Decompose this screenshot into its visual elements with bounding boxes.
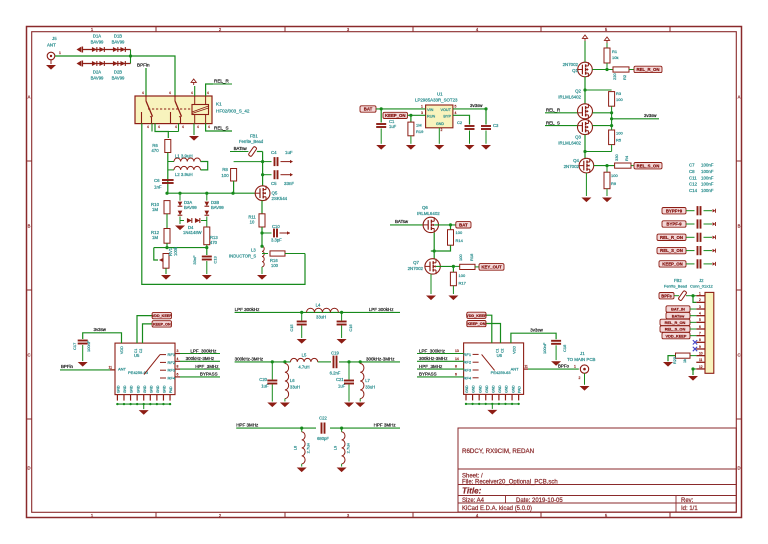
svg-text:4: 4 <box>169 91 171 95</box>
svg-text:1: 1 <box>59 51 61 55</box>
svg-text:REL_R_ON: REL_R_ON <box>637 67 660 72</box>
svg-text:BAV99: BAV99 <box>112 76 125 81</box>
svg-text:LPF 300kHz: LPF 300kHz <box>235 307 261 312</box>
svg-text:U1: U1 <box>437 92 443 97</box>
svg-text:RF1: RF1 <box>464 352 472 357</box>
svg-text:4: 4 <box>147 125 149 129</box>
svg-text:1M: 1M <box>416 123 422 128</box>
svg-text:100: 100 <box>616 97 623 102</box>
svg-text:KEEP_ON: KEEP_ON <box>467 322 485 326</box>
svg-text:GND: GND <box>123 385 127 393</box>
svg-text:C5: C5 <box>271 181 277 186</box>
svg-text:3v3sw: 3v3sw <box>94 327 107 332</box>
svg-text:3v3sw: 3v3sw <box>530 328 543 333</box>
svg-text:R3: R3 <box>616 91 622 96</box>
svg-text:TO MAIN PCB: TO MAIN PCB <box>567 357 596 362</box>
svg-text:11: 11 <box>109 366 113 370</box>
svg-text:R2: R2 <box>622 74 627 80</box>
svg-text:4: 4 <box>177 357 179 361</box>
svg-text:C: C <box>27 353 30 358</box>
svg-text:4.7uH: 4.7uH <box>298 365 309 370</box>
svg-text:C22: C22 <box>319 416 327 421</box>
svg-text:BAT_IN: BAT_IN <box>671 307 685 312</box>
svg-text:C3: C3 <box>493 123 499 128</box>
svg-text:BYPF+9: BYPF+9 <box>666 208 683 213</box>
svg-text:LPF 300kHz: LPF 300kHz <box>369 307 395 312</box>
svg-text:C8: C8 <box>689 169 695 174</box>
svg-text:11: 11 <box>525 364 529 368</box>
svg-text:HPF 3MHz: HPF 3MHz <box>236 423 259 428</box>
svg-text:D2B: D2B <box>114 70 122 75</box>
svg-text:R20: R20 <box>673 357 677 364</box>
svg-text:6: 6 <box>177 372 179 376</box>
svg-text:C13: C13 <box>213 256 218 264</box>
svg-text:C14: C14 <box>689 188 698 193</box>
svg-text:GND: GND <box>498 385 502 393</box>
svg-text:J2: J2 <box>699 278 704 283</box>
svg-text:REL_R: REL_R <box>546 107 560 112</box>
svg-text:8: 8 <box>177 365 179 369</box>
svg-text:220: 220 <box>612 73 617 80</box>
svg-text:L3: L3 <box>251 248 256 253</box>
svg-text:Rev:: Rev: <box>681 498 694 504</box>
svg-text:R9: R9 <box>611 181 617 186</box>
svg-text:GND: GND <box>472 385 476 393</box>
svg-text:1: 1 <box>421 105 423 109</box>
svg-text:BPFin: BPFin <box>61 364 74 369</box>
svg-text:470: 470 <box>151 148 159 153</box>
svg-text:REL_S_ON: REL_S_ON <box>637 163 660 168</box>
svg-text:Date: 2019-10-05: Date: 2019-10-05 <box>516 498 563 504</box>
svg-text:Ferrite_Bead: Ferrite_Bead <box>664 284 687 289</box>
svg-text:KiCad E.D.A. kicad (5.0.0): KiCad E.D.A. kicad (5.0.0) <box>462 506 532 512</box>
svg-text:C2: C2 <box>457 120 463 125</box>
svg-text:L6: L6 <box>290 378 295 383</box>
svg-text:VDD: VDD <box>120 346 124 354</box>
svg-text:C7: C7 <box>689 163 695 168</box>
svg-text:2SK544: 2SK544 <box>272 196 288 201</box>
svg-text:File: Receiver20_Optional_PCB.: File: Receiver20_Optional_PCB.sch <box>462 480 558 486</box>
svg-text:HF02/003_S_42: HF02/003_S_42 <box>216 109 250 114</box>
svg-text:33uH: 33uH <box>365 385 375 390</box>
svg-text:VDD_KEEP: VDD_KEEP <box>466 314 487 318</box>
svg-text:R18: R18 <box>469 253 474 261</box>
svg-text:BPFin: BPFin <box>137 63 150 68</box>
svg-text:300kHz-3MHz: 300kHz-3MHz <box>366 356 395 361</box>
svg-text:100: 100 <box>456 230 463 235</box>
svg-text:4: 4 <box>207 91 209 95</box>
svg-text:C18: C18 <box>562 344 567 352</box>
svg-text:Id: 1/1: Id: 1/1 <box>681 506 698 512</box>
svg-text:8: 8 <box>699 338 701 342</box>
svg-text:REL_S: REL_S <box>214 126 229 131</box>
svg-text:VDD: VDD <box>513 346 517 354</box>
svg-text:FB2: FB2 <box>674 278 682 283</box>
svg-text:REL_R_ON: REL_R_ON <box>660 235 683 240</box>
svg-text:7: 7 <box>699 331 701 335</box>
svg-text:REL_S_ON: REL_S_ON <box>660 248 683 253</box>
svg-text:R4: R4 <box>624 155 629 161</box>
svg-text:RF1: RF1 <box>168 352 176 357</box>
svg-text:GND: GND <box>130 385 134 393</box>
svg-text:100nF: 100nF <box>701 163 714 168</box>
svg-text:KEEP_ON: KEEP_ON <box>662 262 683 267</box>
svg-text:100nF: 100nF <box>542 342 547 354</box>
svg-text:4: 4 <box>182 125 184 129</box>
svg-text:RF2: RF2 <box>168 360 176 365</box>
svg-text:BYPASS: BYPASS <box>419 372 437 377</box>
svg-text:C4: C4 <box>271 150 277 155</box>
svg-text:B: B <box>28 224 31 229</box>
svg-text:470: 470 <box>210 240 218 245</box>
svg-text:3: 3 <box>177 349 179 353</box>
svg-text:4: 4 <box>455 111 457 115</box>
svg-text:Size: A4: Size: A4 <box>462 498 485 504</box>
svg-text:J5: J5 <box>52 36 57 41</box>
svg-text:1uF: 1uF <box>261 384 269 389</box>
svg-text:100nF: 100nF <box>86 340 91 352</box>
svg-text:6.2nF: 6.2nF <box>330 371 341 376</box>
svg-text:9: 9 <box>699 345 701 349</box>
svg-text:GND: GND <box>136 385 140 393</box>
svg-text:REL_R_ON: REL_R_ON <box>665 320 686 325</box>
svg-text:Conn_01x12: Conn_01x12 <box>690 284 713 289</box>
svg-text:6: 6 <box>699 325 701 329</box>
svg-text:RUN: RUN <box>427 115 435 119</box>
svg-text:BYP: BYP <box>443 115 451 119</box>
svg-text:RF3: RF3 <box>464 368 472 373</box>
svg-text:12: 12 <box>699 365 703 369</box>
svg-text:4: 4 <box>197 125 199 129</box>
svg-text:Ferrite_Bead: Ferrite_Bead <box>239 139 264 144</box>
svg-text:FB1: FB1 <box>250 134 258 139</box>
svg-text:2.7uH: 2.7uH <box>306 443 311 454</box>
svg-text:GND: GND <box>150 385 154 393</box>
svg-text:C6: C6 <box>154 178 160 183</box>
svg-text:33nF: 33nF <box>284 181 294 186</box>
svg-text:GND: GND <box>117 385 121 393</box>
svg-text:Q6: Q6 <box>422 205 428 210</box>
svg-text:J1: J1 <box>580 351 585 356</box>
svg-text:PE4259-63: PE4259-63 <box>491 370 512 375</box>
svg-text:4: 4 <box>142 91 144 95</box>
svg-text:GND: GND <box>492 385 496 393</box>
svg-text:10: 10 <box>699 351 703 355</box>
svg-text:A: A <box>28 95 31 100</box>
svg-text:HPF 3MHz: HPF 3MHz <box>374 423 397 428</box>
svg-text:300kHz-3MHz: 300kHz-3MHz <box>186 356 215 361</box>
svg-text:PAD: PAD <box>518 386 522 393</box>
svg-text:Q4: Q4 <box>573 158 579 163</box>
svg-text:1nF: 1nF <box>154 185 162 190</box>
svg-text:1uF: 1uF <box>285 150 293 155</box>
svg-text:GND: GND <box>143 385 147 393</box>
svg-text:10k: 10k <box>612 55 618 60</box>
svg-text:100nF: 100nF <box>701 175 714 180</box>
svg-text:L4: L4 <box>316 303 321 308</box>
svg-text:Q3: Q3 <box>575 135 581 140</box>
svg-text:PAD: PAD <box>169 386 173 393</box>
svg-text:5: 5 <box>699 318 701 322</box>
svg-text:K1: K1 <box>216 102 222 107</box>
svg-text:KEY_OUT: KEY_OUT <box>481 265 502 270</box>
svg-text:L8: L8 <box>293 445 298 450</box>
svg-text:100k: 100k <box>173 246 178 256</box>
svg-text:680pF: 680pF <box>317 436 329 441</box>
svg-text:33uH: 33uH <box>290 385 300 390</box>
svg-text:D: D <box>27 466 30 471</box>
svg-text:VOUT: VOUT <box>440 108 451 112</box>
svg-text:VDD_KEEP: VDD_KEEP <box>152 314 172 318</box>
svg-text:1uF: 1uF <box>389 124 397 129</box>
svg-text:R14: R14 <box>456 238 464 243</box>
svg-text:A: A <box>738 95 741 100</box>
svg-text:R5: R5 <box>616 138 622 143</box>
svg-text:Q7: Q7 <box>413 260 419 265</box>
svg-text:GND: GND <box>465 385 469 393</box>
svg-text:R17: R17 <box>459 281 467 286</box>
svg-text:RF4: RF4 <box>168 376 176 381</box>
svg-text:L7: L7 <box>365 378 370 383</box>
svg-text:4: 4 <box>699 311 701 315</box>
svg-text:Q2: Q2 <box>575 89 581 94</box>
svg-text:D: D <box>737 466 740 471</box>
svg-text:GND: GND <box>505 385 509 393</box>
svg-text:U6: U6 <box>497 353 503 358</box>
svg-text:13: 13 <box>455 349 459 353</box>
svg-text:BPFs: BPFs <box>661 293 672 298</box>
svg-text:BAT: BAT <box>459 222 468 227</box>
svg-text:IRLML6402: IRLML6402 <box>558 141 581 146</box>
svg-text:BAV99: BAV99 <box>91 76 104 81</box>
svg-text:R6DCY, RX9CIM, REDAN: R6DCY, RX9CIM, REDAN <box>462 448 534 455</box>
svg-text:GND: GND <box>478 385 482 393</box>
svg-text:100nF: 100nF <box>701 182 714 187</box>
svg-text:100: 100 <box>271 263 279 268</box>
svg-text:Q1: Q1 <box>572 68 578 73</box>
svg-text:C12: C12 <box>689 182 698 187</box>
svg-text:INDUCTOR_S: INDUCTOR_S <box>229 254 256 259</box>
svg-text:L9: L9 <box>333 445 338 450</box>
svg-text:L2 3.9uH: L2 3.9uH <box>175 172 193 177</box>
svg-text:BAV99: BAV99 <box>184 205 197 210</box>
svg-text:2: 2 <box>579 376 581 380</box>
svg-text:1M: 1M <box>152 207 158 212</box>
svg-text:KEEP_ON: KEEP_ON <box>385 113 406 118</box>
svg-text:Title:: Title: <box>462 487 482 496</box>
svg-text:R19: R19 <box>416 129 424 134</box>
svg-text:VDD_KEEP: VDD_KEEP <box>666 333 687 338</box>
svg-text:D1A: D1A <box>93 34 101 39</box>
svg-text:8: 8 <box>455 365 457 369</box>
svg-text:C19: C19 <box>331 351 339 356</box>
svg-text:BAV99: BAV99 <box>112 40 125 45</box>
svg-text:100: 100 <box>611 173 618 178</box>
svg-text:REL_R: REL_R <box>214 79 229 84</box>
svg-text:GND: GND <box>436 122 444 126</box>
svg-text:D1B: D1B <box>114 34 122 39</box>
svg-text:100nF: 100nF <box>701 188 714 193</box>
svg-text:3: 3 <box>699 305 701 309</box>
svg-text:2: 2 <box>441 128 443 132</box>
svg-text:KEEP_ON: KEEP_ON <box>153 323 171 327</box>
svg-text:LPF_300kHz: LPF_300kHz <box>190 348 217 353</box>
svg-text:BATsw: BATsw <box>395 219 409 224</box>
svg-text:GND: GND <box>156 385 160 393</box>
svg-text:VIN: VIN <box>427 108 434 112</box>
svg-text:ANT: ANT <box>511 366 520 371</box>
svg-text:100: 100 <box>459 273 466 278</box>
svg-text:300kHz-3MHz: 300kHz-3MHz <box>419 356 448 361</box>
svg-text:C17: C17 <box>72 342 77 350</box>
svg-text:L5: L5 <box>302 352 307 357</box>
svg-text:1N4148W: 1N4148W <box>183 230 202 235</box>
svg-text:B: B <box>738 224 741 229</box>
svg-text:R1: R1 <box>612 49 618 54</box>
svg-text:RF4: RF4 <box>464 375 472 380</box>
svg-text:GND: GND <box>511 385 515 393</box>
svg-text:10: 10 <box>250 220 255 225</box>
svg-text:BPFo: BPFo <box>558 363 570 368</box>
svg-text:C20: C20 <box>259 377 267 382</box>
svg-text:RF2: RF2 <box>464 360 472 365</box>
svg-text:C15: C15 <box>289 324 294 332</box>
svg-text:300kHz-3MHz: 300kHz-3MHz <box>235 356 264 361</box>
svg-text:2N7002: 2N7002 <box>564 164 580 169</box>
svg-text:HPF_3MHz: HPF_3MHz <box>419 364 443 369</box>
svg-text:100nF: 100nF <box>701 169 714 174</box>
svg-text:REL_S_ON: REL_S_ON <box>665 327 686 332</box>
svg-text:LPF_300kHz: LPF_300kHz <box>419 348 446 353</box>
svg-text:2.7uH: 2.7uH <box>346 443 351 454</box>
svg-text:ANT: ANT <box>47 43 56 48</box>
svg-text:3: 3 <box>421 111 423 115</box>
svg-text:100: 100 <box>458 254 463 261</box>
svg-text:100: 100 <box>616 131 623 136</box>
svg-text:1uF: 1uF <box>338 384 346 389</box>
svg-text:GND: GND <box>485 385 489 393</box>
svg-text:C16: C16 <box>348 324 353 332</box>
svg-text:100: 100 <box>221 173 229 178</box>
svg-text:L1 3.9uH: L1 3.9uH <box>175 154 193 159</box>
svg-text:1: 1 <box>574 364 576 368</box>
svg-text:C: C <box>737 353 740 358</box>
svg-text:5: 5 <box>455 105 457 109</box>
svg-text:BAV99: BAV99 <box>91 40 104 45</box>
svg-text:D2A: D2A <box>93 70 101 75</box>
svg-text:C10: C10 <box>272 224 280 229</box>
svg-text:1k: 1k <box>683 359 687 363</box>
svg-text:1: 1 <box>699 292 701 296</box>
svg-text:4: 4 <box>158 125 160 129</box>
svg-text:3.3pF: 3.3pF <box>271 238 282 243</box>
svg-text:2: 2 <box>699 298 701 302</box>
svg-text:IRLML6402: IRLML6402 <box>417 211 440 216</box>
svg-text:BYPF-9: BYPF-9 <box>666 222 682 227</box>
svg-text:C11: C11 <box>689 175 697 180</box>
svg-text:BATsw: BATsw <box>672 313 686 318</box>
svg-text:R8: R8 <box>222 167 228 172</box>
svg-text:C2: C2 <box>139 349 143 353</box>
svg-text:LP2985A33R_SOT23: LP2985A33R_SOT23 <box>415 98 458 103</box>
svg-text:Q5: Q5 <box>272 191 278 196</box>
svg-text:11: 11 <box>699 358 703 362</box>
svg-text:RF3: RF3 <box>168 368 176 373</box>
svg-text:U5: U5 <box>134 353 140 358</box>
svg-text:4: 4 <box>175 125 177 129</box>
svg-text:REL_S: REL_S <box>546 120 560 125</box>
svg-text:4: 4 <box>191 91 193 95</box>
svg-text:HPF_3MHz: HPF_3MHz <box>195 364 219 369</box>
svg-text:GND: GND <box>163 385 167 393</box>
svg-text:2N7002: 2N7002 <box>408 266 424 271</box>
svg-text:BATsw: BATsw <box>234 146 248 151</box>
svg-text:14: 14 <box>455 357 459 361</box>
svg-text:ANT: ANT <box>118 367 127 372</box>
svg-text:2N7002: 2N7002 <box>563 62 579 67</box>
svg-text:BAV99: BAV99 <box>211 205 224 210</box>
svg-text:IRLML6402: IRLML6402 <box>558 95 581 100</box>
svg-text:C21: C21 <box>336 377 344 382</box>
svg-text:1M: 1M <box>152 235 158 240</box>
svg-text:4: 4 <box>208 125 210 129</box>
svg-text:3v3sw: 3v3sw <box>470 103 483 108</box>
svg-text:6: 6 <box>455 372 457 376</box>
svg-text:BYPASS: BYPASS <box>200 372 218 377</box>
svg-text:3v3sw: 3v3sw <box>644 113 657 118</box>
svg-text:BAT: BAT <box>364 107 373 112</box>
svg-text:33uH: 33uH <box>316 315 326 320</box>
svg-text:330: 330 <box>614 154 619 161</box>
svg-text:33nF: 33nF <box>192 255 197 265</box>
